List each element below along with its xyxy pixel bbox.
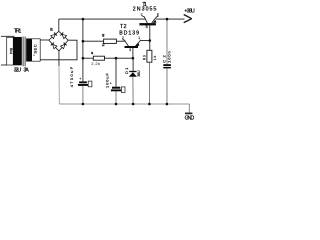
svg-text:+38U: +38U <box>184 8 195 14</box>
svg-text:+: + <box>110 82 112 86</box>
svg-text:GND: GND <box>185 116 195 122</box>
svg-text:2,2k: 2,2k <box>91 61 100 66</box>
svg-text:100n: 100n <box>167 51 172 63</box>
svg-text:T2: T2 <box>120 24 127 30</box>
svg-text:1: 1 <box>138 36 140 40</box>
svg-text:R1: R1 <box>91 51 94 55</box>
svg-text:3A: 3A <box>24 68 30 74</box>
svg-text:4700uF: 4700uF <box>69 66 74 87</box>
svg-text:SEC: SEC <box>32 44 37 53</box>
svg-text:E: E <box>157 13 159 17</box>
svg-text:22: 22 <box>102 43 105 47</box>
svg-text:R2: R2 <box>102 34 105 38</box>
svg-text:TR1: TR1 <box>14 28 22 34</box>
svg-text:C2: C2 <box>161 54 166 62</box>
svg-text:B1: B1 <box>50 27 53 31</box>
svg-text:PRI: PRI <box>9 48 14 55</box>
svg-text:B: B <box>146 25 148 29</box>
svg-text:2N3055: 2N3055 <box>133 7 157 13</box>
svg-text:1k: 1k <box>153 56 157 61</box>
svg-text:D1: D1 <box>124 67 129 74</box>
svg-text:+: + <box>79 77 81 81</box>
svg-text:3: 3 <box>129 48 131 52</box>
svg-text:32U: 32U <box>14 68 22 74</box>
svg-text:R3: R3 <box>143 55 147 60</box>
svg-text:2: 2 <box>122 36 124 40</box>
svg-text:100uF: 100uF <box>105 73 110 88</box>
svg-text:39U: 39U <box>136 70 141 77</box>
